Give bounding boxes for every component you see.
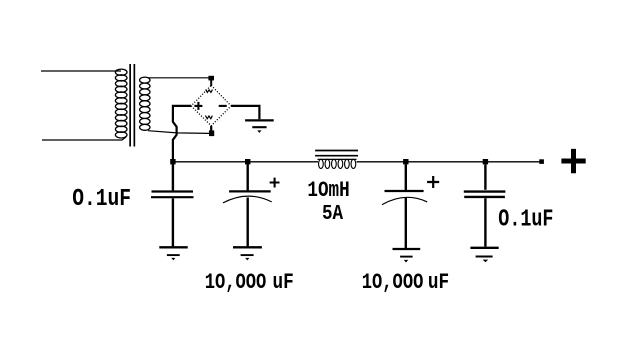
svg-text:O.1uF: O.1uF: [498, 206, 553, 233]
svg-text:O.1uF: O.1uF: [72, 185, 131, 213]
svg-text:1O,OOO: 1O,OOO: [362, 270, 424, 295]
svg-text:1O,OOO: 1O,OOO: [205, 270, 267, 295]
svg-text:5A: 5A: [322, 202, 343, 226]
svg-text:uF: uF: [273, 270, 294, 296]
svg-text:1OmH: 1OmH: [307, 177, 349, 202]
svg-text:uF: uF: [428, 270, 449, 296]
